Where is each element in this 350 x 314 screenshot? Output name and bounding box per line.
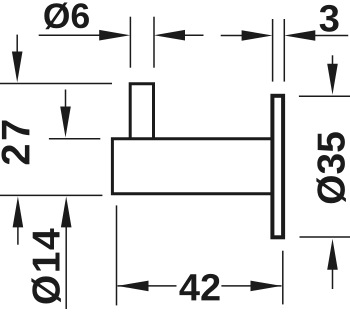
dim 3 left extension line bbox=[272, 19, 274, 82]
dim 42 line left segment bbox=[118, 285, 177, 287]
dim Ø6 left tail line bbox=[39, 34, 104, 36]
dim Ø14 right arrowhead bbox=[61, 196, 72, 227]
label 42 bbox=[179, 274, 219, 301]
dim 42 right arrowhead bbox=[251, 281, 282, 292]
dim 42 left extension line bbox=[116, 205, 118, 305]
dim Ø6 left arrowhead bbox=[99, 30, 130, 41]
dim Ø14 left arrowhead bbox=[13, 196, 24, 227]
dim Ø6 right extension line bbox=[153, 17, 155, 68]
dim 42 right extension line bbox=[282, 251, 284, 305]
dim Ø6 right tail line bbox=[181, 34, 204, 36]
dim Ø35 top arrowhead bbox=[327, 64, 338, 95]
wall plate outline bbox=[272, 96, 283, 238]
dim Ø35 bottom arrowhead bbox=[327, 239, 338, 270]
dim Ø14 right arrow shaft bbox=[65, 225, 67, 309]
dim Ø35 bottom reference line bbox=[300, 236, 350, 238]
hook peg outline bbox=[130, 84, 153, 140]
dim 27 upper arrow shaft bbox=[16, 35, 18, 55]
dim 3 right arrowhead bbox=[284, 30, 315, 41]
label 3 bbox=[320, 5, 339, 32]
dim 42 left arrowhead bbox=[118, 281, 149, 292]
dim Ø6 right arrowhead bbox=[154, 30, 185, 41]
dim 3 right tail line bbox=[312, 35, 348, 37]
dim 27 lower reference line (body top) bbox=[49, 138, 100, 140]
label &#216;14 bbox=[31, 229, 61, 304]
dim Ø14 left arrow shaft bbox=[17, 225, 19, 245]
dim 27 upper reference line (peg top) bbox=[0, 83, 112, 85]
dim 27 upper arrowhead bbox=[12, 52, 23, 83]
dim 42 line right segment bbox=[221, 285, 281, 287]
dim Ø14 reference line (body bottom) bbox=[0, 194, 102, 196]
label 27 bbox=[2, 121, 30, 165]
hook body outline bbox=[112, 139, 272, 194]
label &#216;35 bbox=[316, 132, 346, 203]
dim Ø35 top reference line bbox=[299, 95, 350, 97]
dim 3 right extension line bbox=[283, 19, 285, 82]
dim 3 left arrowhead bbox=[242, 30, 273, 41]
dim 27 lower arrow shaft bbox=[65, 90, 67, 111]
dim 27 lower arrowhead bbox=[60, 107, 71, 138]
dim 3 left tail line bbox=[221, 35, 245, 37]
label &#216;6 bbox=[44, 3, 89, 30]
dim Ø35 bottom arrow shaft bbox=[332, 267, 334, 289]
dim Ø6 left extension line bbox=[129, 17, 131, 68]
dim Ø35 top arrow shaft bbox=[332, 55, 334, 66]
